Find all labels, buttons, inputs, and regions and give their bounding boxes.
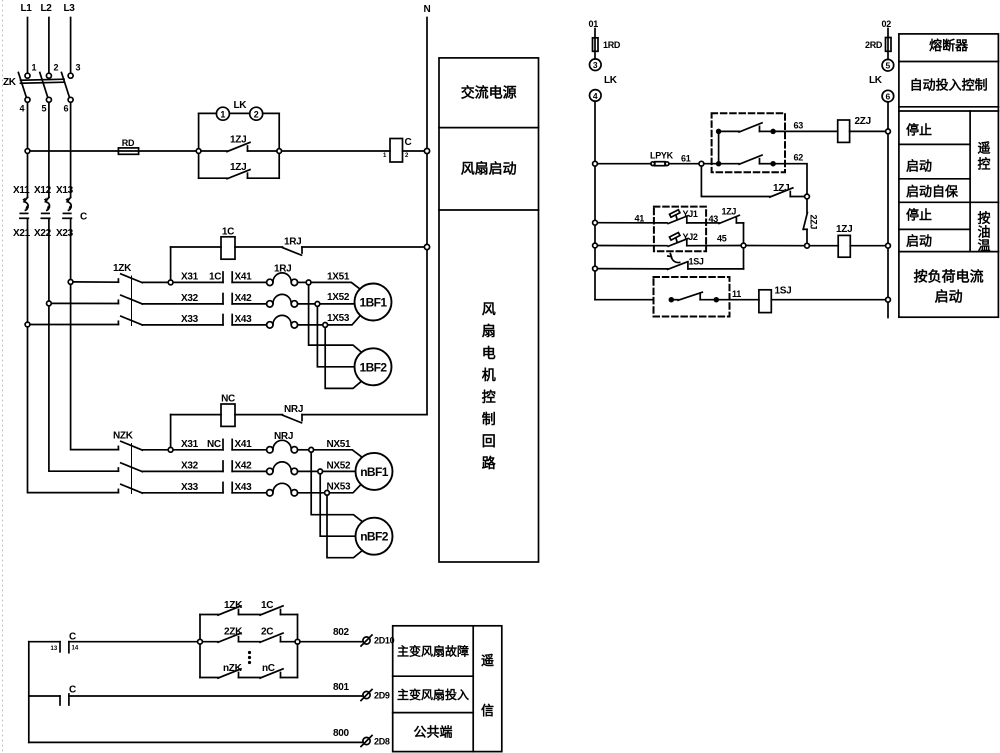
svg-text:1ZJ: 1ZJ [230, 135, 246, 146]
svg-text:L3: L3 [63, 3, 75, 14]
wire phase1 to 1ZK pole3 [30, 324, 119, 326]
wire X43 to heater row3 [232, 324, 266, 326]
svg-text:45: 45 [717, 234, 727, 244]
svg-text:C: C [69, 632, 76, 643]
wire N vertical [426, 18, 428, 415]
wire L3 drop [70, 18, 72, 73]
right table border start2 [899, 251, 999, 253]
svg-text:1ZJ: 1ZJ [230, 162, 246, 173]
wire 1ZJ start down to row45 [743, 223, 745, 243]
dashed box oil temp contacts [654, 207, 706, 252]
node junction nBF2 tap row1 [309, 447, 314, 452]
svg-text:NX51: NX51 [327, 439, 352, 450]
wire heater to junction row2 [298, 303, 315, 305]
wire phase1 vertical [27, 103, 29, 198]
svg-text:NZK: NZK [113, 431, 134, 442]
contact 62 [717, 155, 775, 166]
svg-text:控: 控 [482, 389, 496, 405]
svg-text:路: 路 [482, 455, 497, 471]
wire self-hold branch down [701, 166, 769, 196]
svg-text:X42: X42 [235, 461, 253, 472]
switch 1ZK pole2 [118, 295, 142, 304]
contact nZK aux [218, 669, 241, 678]
coil NC [221, 404, 235, 426]
wire row45 mid [746, 245, 805, 247]
terminal circle 6 [882, 90, 894, 102]
motor nBF1 [356, 453, 393, 490]
svg-text:C: C [69, 685, 76, 696]
svg-text:1C: 1C [261, 600, 273, 611]
svg-text:6: 6 [64, 104, 69, 114]
wire middle branch segments [202, 641, 295, 643]
fuse RD [118, 148, 138, 154]
telemetry table frame [393, 626, 502, 752]
coil 1ZJ [838, 235, 850, 257]
svg-text:回: 回 [482, 433, 496, 449]
contact 1ZJ self-hold [770, 188, 805, 197]
contact YJ2 [668, 233, 741, 247]
svg-text:13: 13 [51, 646, 58, 652]
wire X41 to heater row1 [232, 281, 266, 283]
wire coil 2ZJ to rail [850, 130, 886, 132]
contact 2ZK aux [218, 633, 241, 642]
heater element row3 [267, 315, 298, 328]
wire heater to junction row1 [298, 281, 307, 283]
svg-text:X33: X33 [181, 314, 199, 325]
svg-text:X32: X32 [181, 461, 199, 472]
wire top branch [200, 615, 298, 640]
svg-text:信: 信 [481, 703, 494, 718]
svg-text:主变风扇投入: 主变风扇投入 [397, 687, 469, 702]
wire X42 to heater row2 [232, 303, 266, 305]
svg-text:X41: X41 [235, 439, 253, 450]
wire telemetry left rail [28, 642, 30, 743]
wire box to label 11 [718, 299, 759, 301]
svg-text:1RJ: 1RJ [284, 237, 301, 248]
svg-text:1ZJ: 1ZJ [836, 224, 852, 235]
wire X42 to heater row2 g2 [232, 470, 266, 472]
svg-text:1C: 1C [209, 272, 221, 283]
wire 62 to corner P [775, 164, 807, 194]
svg-text:X12: X12 [34, 185, 52, 196]
svg-text:风扇启动: 风扇启动 [461, 161, 517, 177]
svg-text:2D10: 2D10 [374, 636, 395, 646]
terminal 2D9 [361, 690, 372, 701]
svg-text:01: 01 [589, 19, 599, 29]
svg-text:1X51: 1X51 [327, 272, 350, 283]
svg-text:nBF2: nBF2 [360, 530, 389, 544]
lamp 1 [216, 107, 229, 120]
svg-text:启动: 启动 [906, 159, 932, 174]
table row border 1 [439, 127, 539, 129]
svg-text:扇: 扇 [482, 323, 496, 339]
wire phase3 to 1ZK pole1 [73, 281, 118, 283]
wire NC right lead [235, 414, 283, 416]
wire coil C to N [403, 150, 425, 152]
svg-text:LK: LK [234, 100, 248, 111]
wire row X32 [142, 303, 223, 305]
right table border stop1 [899, 143, 970, 145]
telemetry table column divider [472, 626, 474, 752]
svg-text:2ZJ: 2ZJ [809, 215, 819, 230]
svg-text:6: 6 [886, 92, 891, 102]
terminal circle 3 [590, 59, 602, 71]
wire bottom row from rail corner [595, 299, 654, 301]
svg-text:RD: RD [122, 138, 135, 148]
contact C 13-14 row1 [60, 642, 69, 653]
node junction on N at 1RJ [424, 244, 429, 249]
wire phase3 vertical [70, 103, 72, 198]
svg-text:停止: 停止 [906, 123, 932, 138]
svg-text:2D9: 2D9 [374, 691, 390, 701]
wire RD to LK branch [139, 150, 197, 152]
terminal bars row3 g2 [223, 482, 232, 492]
wire 1C right lead [235, 246, 283, 248]
svg-text:1X53: 1X53 [327, 313, 350, 324]
svg-text:X32: X32 [181, 293, 199, 304]
right table column divider [969, 111, 971, 252]
node junction right rail 1ZJ [886, 243, 891, 248]
breaker ZK pole2 terminals 2-5 [40, 73, 52, 103]
node junction LK branch right [277, 149, 282, 154]
wire row X32 g2 [142, 470, 223, 472]
right table double border top [899, 106, 999, 108]
wire 1BF2 feed phase a [309, 285, 361, 352]
svg-text:1RJ: 1RJ [274, 264, 291, 275]
telemetry table row border 1 [393, 675, 474, 677]
terminal bars row3 [223, 315, 232, 325]
svg-text:61: 61 [681, 154, 691, 164]
coil 2ZJ [838, 120, 850, 142]
switch 1ZK pole1 [118, 274, 142, 283]
svg-text:63: 63 [794, 121, 804, 131]
node junction LK branch left [196, 149, 201, 154]
node junction rail 41 [593, 220, 598, 225]
node junction phase1 tap row3 [25, 322, 30, 327]
svg-text:2: 2 [254, 109, 259, 119]
wire row1 output [300, 641, 363, 643]
wire heater to junction row1 g2 [298, 449, 309, 451]
svg-text:C: C [405, 137, 412, 148]
svg-text:2RD: 2RD [865, 40, 883, 50]
svg-text:11: 11 [732, 289, 741, 299]
text by oil temp vertical [977, 211, 990, 254]
right table border selfhold [899, 201, 999, 203]
svg-text:3: 3 [76, 63, 81, 73]
node junction 1BF2 tap row1 [306, 280, 311, 285]
node junction 45 [741, 243, 746, 248]
terminal bars row2 [223, 294, 232, 304]
svg-text:C: C [80, 212, 87, 223]
contact 1ZJ main row [201, 142, 277, 151]
wire 1C left lead [171, 247, 221, 280]
node junction nBF2 tap row3 [325, 490, 330, 495]
wire 43 to 1ZJ contact [706, 222, 719, 224]
svg-text:nZK: nZK [223, 663, 243, 674]
table row border 2 [439, 209, 539, 211]
wire 1RD to terminal 3 [594, 51, 596, 59]
node junction 61 [699, 161, 704, 166]
right table border start1 [899, 178, 970, 180]
wire phase2 corner to NZK pole2 [49, 306, 119, 471]
wire row 1SJ left [597, 268, 667, 270]
wire X41 to heater row1 g2 [232, 449, 266, 451]
svg-text:NRJ: NRJ [274, 431, 293, 442]
svg-text:L1: L1 [20, 3, 32, 14]
svg-text:风: 风 [482, 301, 496, 317]
svg-text:LK: LK [604, 75, 618, 86]
breaker ZK pole3 terminals 3-6 [62, 73, 74, 103]
svg-text:801: 801 [333, 682, 350, 693]
wire nBF2 feed phase b [320, 474, 355, 536]
motor 1BF2 [355, 348, 392, 385]
wire L2 drop [48, 18, 50, 73]
text by load current start [914, 269, 984, 305]
heater NRJ element row1 g2 [267, 440, 298, 453]
svg-text:1RD: 1RD [603, 40, 621, 50]
fuse 1RD [593, 38, 599, 52]
right table frame [899, 34, 999, 317]
contact 2ZJ vertical [803, 199, 807, 243]
contact C row2 [60, 694, 69, 705]
wire phase2 to 1ZK pole2 [51, 302, 118, 304]
svg-text:公共端: 公共端 [413, 725, 452, 740]
terminal circle 4 [590, 90, 602, 102]
heater element row3 g2 [267, 483, 298, 496]
wire 1BF2 feed phase b [317, 306, 354, 367]
svg-text:按负荷电流: 按负荷电流 [914, 269, 984, 285]
contact NRJ NC [283, 415, 428, 423]
svg-text:1: 1 [32, 63, 37, 73]
svg-text:X11: X11 [13, 185, 30, 196]
terminal bars row2 g2 [223, 461, 232, 471]
wire control bus to RD [30, 150, 119, 152]
wire lamp branch risers [199, 113, 280, 148]
node junction right rail 1SJ [886, 297, 891, 302]
svg-text:1BF1: 1BF1 [360, 296, 388, 310]
wire heater to junction row3 [298, 324, 323, 326]
wire lamp branch bottom [199, 153, 280, 178]
svg-text:LPYK: LPYK [650, 151, 674, 161]
fuse 2RD [886, 38, 892, 52]
svg-text:802: 802 [333, 627, 350, 638]
svg-text:X43: X43 [235, 482, 253, 493]
svg-text:1ZJ: 1ZJ [722, 207, 737, 217]
right table border fuse row [899, 61, 999, 63]
wire row1 to parallel block [69, 641, 198, 643]
dashed box remote start-stop [712, 113, 785, 172]
svg-text:1SJ: 1SJ [775, 286, 792, 297]
wire row3 to motor 1BF1 [328, 316, 360, 325]
heater element row2 g2 [267, 462, 298, 475]
switch NZK pole1 [118, 441, 142, 450]
contact 1C aux [260, 606, 283, 615]
svg-text:X13: X13 [56, 185, 74, 196]
coil C [390, 139, 403, 163]
contact nC aux [260, 669, 283, 678]
wire 1BF2 feed phase c [325, 327, 361, 388]
svg-text:ZK: ZK [3, 77, 17, 88]
dashed box load current start [654, 277, 730, 317]
ellipsis dots [248, 651, 251, 664]
svg-text:2: 2 [54, 63, 59, 73]
svg-text:电: 电 [482, 345, 496, 361]
svg-text:停止: 停止 [906, 208, 932, 223]
wire phase1 corner to NZK pole3 [28, 327, 119, 493]
switch NZK pole2 [118, 463, 142, 472]
svg-text:800: 800 [333, 728, 350, 739]
wire bottom branch [200, 644, 298, 677]
node junction P [805, 194, 810, 199]
svg-text:2ZK: 2ZK [224, 627, 243, 638]
switch 1ZK pole3 [118, 316, 142, 325]
svg-text:nBF1: nBF1 [360, 465, 389, 479]
wire 1SJ row up to node 45 [743, 248, 745, 269]
heater element row2 [267, 294, 298, 307]
wire coil 1ZJ to rail [850, 245, 885, 247]
connector X13-X23 phase3 [63, 197, 72, 282]
wire row1 left segment [29, 641, 60, 643]
wire row41 to box [597, 222, 667, 224]
svg-text:2C: 2C [261, 627, 273, 638]
node junction parallel left [198, 639, 203, 644]
svg-text:X42: X42 [235, 293, 253, 304]
svg-text:X22: X22 [34, 228, 52, 239]
svg-text:遥: 遥 [481, 653, 494, 668]
wire heater to junction row2 g2 [298, 470, 318, 472]
connector X11-X21 phase1 [20, 197, 29, 324]
svg-text:LK: LK [869, 75, 883, 86]
text remote control vertical [977, 141, 990, 172]
wire row45 left [597, 245, 667, 247]
node junction rail 61 [593, 161, 598, 166]
table left column frame [439, 58, 539, 562]
motor 1BF1 [355, 284, 392, 321]
svg-text:自动投入控制: 自动投入控制 [910, 78, 988, 93]
wire row2 output [69, 695, 363, 697]
wire row61 to LPYK [597, 163, 651, 165]
node junction nBF2 tap row2 [318, 469, 323, 474]
wire row2 left segment [29, 695, 60, 697]
wire 02 to 2RD [887, 29, 889, 38]
coil 1SJ [759, 290, 771, 313]
wire row3 output [29, 741, 363, 743]
wire heater to junction row3 g2 [298, 492, 325, 494]
switch NZK pole3 [118, 484, 142, 493]
svg-text:温: 温 [977, 238, 990, 253]
wire row X33 [142, 324, 223, 326]
svg-text:4: 4 [20, 104, 25, 114]
svg-text:熔断器: 熔断器 [929, 38, 969, 53]
wire row X31 [142, 281, 223, 283]
svg-text:3: 3 [593, 60, 598, 70]
wire coil 1SJ to rail [771, 299, 885, 301]
node junction rail 1SJ [593, 266, 598, 271]
node junction coil tap on X31 [168, 280, 173, 285]
svg-text:启动自保: 启动自保 [906, 184, 959, 199]
node junction on N at C [424, 148, 429, 153]
wire link 63-62 left dots [718, 131, 720, 163]
switch NZK linkage [131, 444, 133, 494]
switch 1ZK linkage [131, 276, 133, 326]
svg-text:X41: X41 [235, 272, 253, 283]
lamp 2 [250, 107, 263, 120]
contact 1RJ NC [283, 247, 425, 255]
wire row1 to motor 1BF1 [311, 282, 360, 289]
svg-text:2ZJ: 2ZJ [855, 116, 871, 127]
svg-text:X21: X21 [13, 228, 31, 239]
svg-text:N: N [424, 4, 431, 15]
wire row45 to coil 1ZJ [809, 245, 838, 247]
connector X12-X22 phase2 [41, 197, 50, 303]
svg-text:02: 02 [882, 19, 892, 29]
motor nBF2 [356, 518, 393, 555]
svg-text:制: 制 [482, 411, 496, 427]
node junction rail 45 [593, 243, 598, 248]
terminal 2D10 [361, 635, 372, 646]
svg-text:遥: 遥 [977, 141, 990, 156]
node junction phase2 tap row2 [47, 301, 52, 306]
svg-text:1ZJ: 1ZJ [773, 183, 789, 194]
svg-text:1SJ: 1SJ [689, 257, 704, 267]
svg-text:主变风扇故障: 主变风扇故障 [397, 644, 469, 659]
wire nBF2 feed phase c [327, 495, 362, 558]
svg-text:nC: nC [262, 663, 275, 674]
svg-text:按: 按 [977, 211, 990, 226]
wire LK branch to coil C [282, 150, 390, 152]
wire left rail [594, 101, 596, 300]
contact 1ZJ lower branch [227, 170, 250, 179]
contact load current start [669, 292, 718, 301]
svg-text:NC: NC [207, 439, 221, 450]
contact 1SJ delayed [668, 254, 744, 270]
svg-text:NX52: NX52 [327, 461, 352, 472]
svg-text:X23: X23 [56, 228, 74, 239]
contact YJ1 [668, 210, 706, 224]
heater 1RJ element row1 [267, 273, 298, 286]
svg-text:1ZK: 1ZK [113, 263, 132, 274]
svg-text:1C: 1C [222, 227, 234, 238]
terminal 2D8 [361, 736, 372, 747]
wire NC left lead [171, 415, 221, 448]
svg-text:1: 1 [220, 109, 225, 119]
node junction parallel right [295, 639, 300, 644]
svg-text:X31: X31 [181, 272, 199, 283]
wire row X31 g2 [142, 449, 223, 451]
svg-text:2D8: 2D8 [374, 737, 390, 747]
contact 1ZJ start [719, 215, 744, 223]
link strap LPYK [651, 162, 669, 166]
coil 1C [221, 237, 235, 259]
wire right rail [887, 102, 889, 318]
svg-text:4: 4 [593, 91, 598, 101]
wire row2 to motor 1BF1 [320, 303, 355, 305]
wire phase2 vertical [48, 103, 50, 198]
wire row2 to motor nBF1 [323, 470, 356, 472]
wire row1 to motor nBF1 [314, 450, 361, 457]
svg-text:1BF2: 1BF2 [360, 360, 388, 374]
svg-text:5: 5 [886, 61, 891, 71]
breaker ZK linkage double bar [21, 79, 65, 83]
svg-text:1ZK: 1ZK [224, 600, 243, 611]
terminal bars row1 g2 [223, 439, 232, 449]
svg-text:L2: L2 [40, 3, 52, 14]
svg-text:5: 5 [42, 104, 47, 114]
node junction phase1 control tap [25, 149, 30, 154]
svg-text:1X52: 1X52 [327, 292, 350, 303]
contact 2C aux [260, 633, 283, 642]
table text remote signal vertical [481, 653, 494, 718]
